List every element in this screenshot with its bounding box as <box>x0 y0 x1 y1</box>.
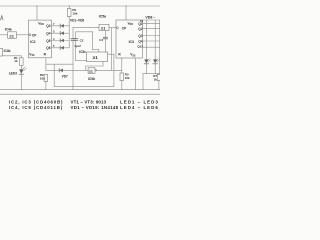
svg-text:LED4 – LED6: LED4 – LED6 <box>120 105 159 110</box>
svg-text:C2: C2 <box>80 38 84 42</box>
wire: row to lower loop <box>46 63 73 65</box>
wire: IC2 R pin drop <box>45 58 47 71</box>
diode VD4 <box>51 46 69 50</box>
node dot on rail <box>125 5 126 6</box>
wire: VDD feed to IC3 <box>125 6 127 20</box>
svg-text:LED3: LED3 <box>9 71 17 75</box>
svg-text:10k: 10k <box>72 11 77 15</box>
svg-text:VT1 – VT3: 9013: VT1 – VT3: 9013 <box>71 100 107 105</box>
svg-text:≥1: ≥1 <box>10 33 15 38</box>
bubble: inverted clock input <box>29 34 31 36</box>
wire: right column <box>159 20 161 74</box>
resistor R2 <box>40 73 48 90</box>
wire: reset row <box>46 69 88 71</box>
wire: ground bus A <box>0 89 160 91</box>
node dot on rail <box>36 5 37 6</box>
svg-text:IC4, IC5 (CD4011B): IC4, IC5 (CD4011B) <box>9 105 63 110</box>
svg-text:C4: C4 <box>99 38 103 42</box>
wire: IC5c output to feedback <box>108 53 114 55</box>
wire: feedback drop <box>92 32 94 50</box>
svg-text:IC5c: IC5c <box>79 50 86 54</box>
wire: IC5b output <box>97 69 122 71</box>
svg-text:Q6: Q6 <box>46 46 50 50</box>
wire: ground bus B <box>0 93 160 95</box>
svg-text:VD1–VD6: VD1–VD6 <box>70 19 84 23</box>
wire: IC3 Q5 row <box>142 46 160 48</box>
svg-text:Q2: Q2 <box>138 27 142 31</box>
wire: diode-AND bus <box>68 17 70 48</box>
wire: IC4a output to IC2 CP <box>16 34 29 36</box>
wire: IC5a output to IC3 CP <box>109 27 116 29</box>
resistor R1 <box>14 56 23 66</box>
svg-text:16: 16 <box>140 19 144 23</box>
svg-text:VSS: VSS <box>29 53 35 58</box>
wire: oscillator feedback <box>76 31 93 33</box>
svg-text:R: R <box>118 53 121 57</box>
wire: drop to lower loop <box>53 64 55 86</box>
svg-text:IC5a: IC5a <box>99 14 106 18</box>
resistor R7 <box>153 74 160 90</box>
svg-text:Q3: Q3 <box>138 34 142 38</box>
svg-text:≥1: ≥1 <box>93 55 98 60</box>
gate IC5b <box>88 68 97 81</box>
wire: IC3 VSS drop <box>135 58 137 90</box>
svg-text:VD1 – VD19: 1N4148: VD1 – VD19: 1N4148 <box>71 105 119 110</box>
svg-text:CP: CP <box>122 26 127 30</box>
caption row 2 <box>9 105 159 110</box>
wire: feedback drop <box>113 54 115 86</box>
wire: VDD feed to IC2 <box>36 6 38 20</box>
wire: IC4b output <box>3 55 22 57</box>
gate IC4b clipped at left edge <box>0 49 11 57</box>
wire: drop to ground bus <box>142 74 144 90</box>
LED D1 <box>144 59 150 74</box>
svg-text:Q4: Q4 <box>138 39 142 43</box>
diode VD3 <box>51 39 69 43</box>
wire: LED column 1 <box>145 20 147 59</box>
svg-text:VD8 –: VD8 – <box>145 16 155 20</box>
svg-text:VSS: VSS <box>130 53 136 58</box>
wire: to IC5a input <box>73 26 99 28</box>
capacitor C4 <box>99 31 107 52</box>
svg-text:1μ×2: 1μ×2 <box>74 44 81 48</box>
bubble: inverted clock input <box>116 27 118 29</box>
svg-text:IC3: IC3 <box>129 40 134 44</box>
svg-text:Q4: Q4 <box>46 32 50 36</box>
svg-text:Q3: Q3 <box>46 24 50 28</box>
wire: into IC5c top <box>98 50 100 52</box>
node: clipped symbol at left edge <box>1 16 3 20</box>
wire: LED cathode bus <box>143 73 160 75</box>
svg-text:IC4b: IC4b <box>4 49 11 53</box>
svg-text:VDD: VDD <box>38 21 44 26</box>
diode VD7 <box>59 69 68 79</box>
gate IC5a <box>99 14 109 30</box>
diode VD1 <box>51 24 69 28</box>
capacitor C2 (two in series, 1u x2) <box>71 27 87 89</box>
svg-text:IC4a: IC4a <box>5 28 12 32</box>
wire: top-right header <box>142 19 160 21</box>
svg-text:CP: CP <box>32 33 37 37</box>
IC3 (CD4060) <box>116 19 143 58</box>
wire: IC3 Q4 row <box>142 40 160 42</box>
svg-text:1k: 1k <box>154 77 158 81</box>
node dot on rail <box>69 5 70 6</box>
svg-text:Q12: Q12 <box>137 45 143 49</box>
wire: +V top rail <box>0 5 160 7</box>
svg-text:IC2: IC2 <box>30 40 35 44</box>
LED3 <box>9 65 27 89</box>
wire: IC3 Q1 row <box>142 22 160 24</box>
svg-text:10k: 10k <box>125 76 130 80</box>
wire: stub below IC5a output <box>110 28 112 70</box>
gate IC4a <box>5 28 17 39</box>
caption row 1 <box>9 100 159 105</box>
svg-text:R: R <box>44 53 47 57</box>
svg-text:10k: 10k <box>40 76 45 80</box>
wire: lower loop horizontal <box>54 85 114 87</box>
svg-text:IC2, IC3 (CD4060B): IC2, IC3 (CD4060B) <box>9 100 63 105</box>
diode VD2 <box>51 31 69 35</box>
wire: LED column 2 <box>154 20 156 59</box>
svg-text:Q5: Q5 <box>46 39 50 43</box>
wire: IC3 Q3 row <box>142 35 160 37</box>
svg-text:1k: 1k <box>14 59 18 63</box>
resistor R3 <box>120 58 130 90</box>
svg-text:LED1 – LED3: LED1 – LED3 <box>120 100 159 105</box>
resistor R5 pull-up <box>67 6 77 17</box>
IC2 (CD4060) <box>28 20 51 58</box>
svg-text:VDD: VDD <box>128 21 134 26</box>
LED D2 <box>153 59 159 74</box>
gate IC5c <box>79 50 107 62</box>
wire: feedback to IC5c <box>93 49 99 51</box>
wire: IC3 Q2 row <box>142 28 160 30</box>
svg-text:VD7: VD7 <box>62 75 68 79</box>
svg-text:≥1: ≥1 <box>89 69 93 73</box>
wire: IC5c lower output <box>102 62 104 67</box>
svg-text:IC5b: IC5b <box>88 77 95 81</box>
wire: input to IC4a <box>0 34 8 36</box>
svg-text:≥1: ≥1 <box>101 26 106 31</box>
